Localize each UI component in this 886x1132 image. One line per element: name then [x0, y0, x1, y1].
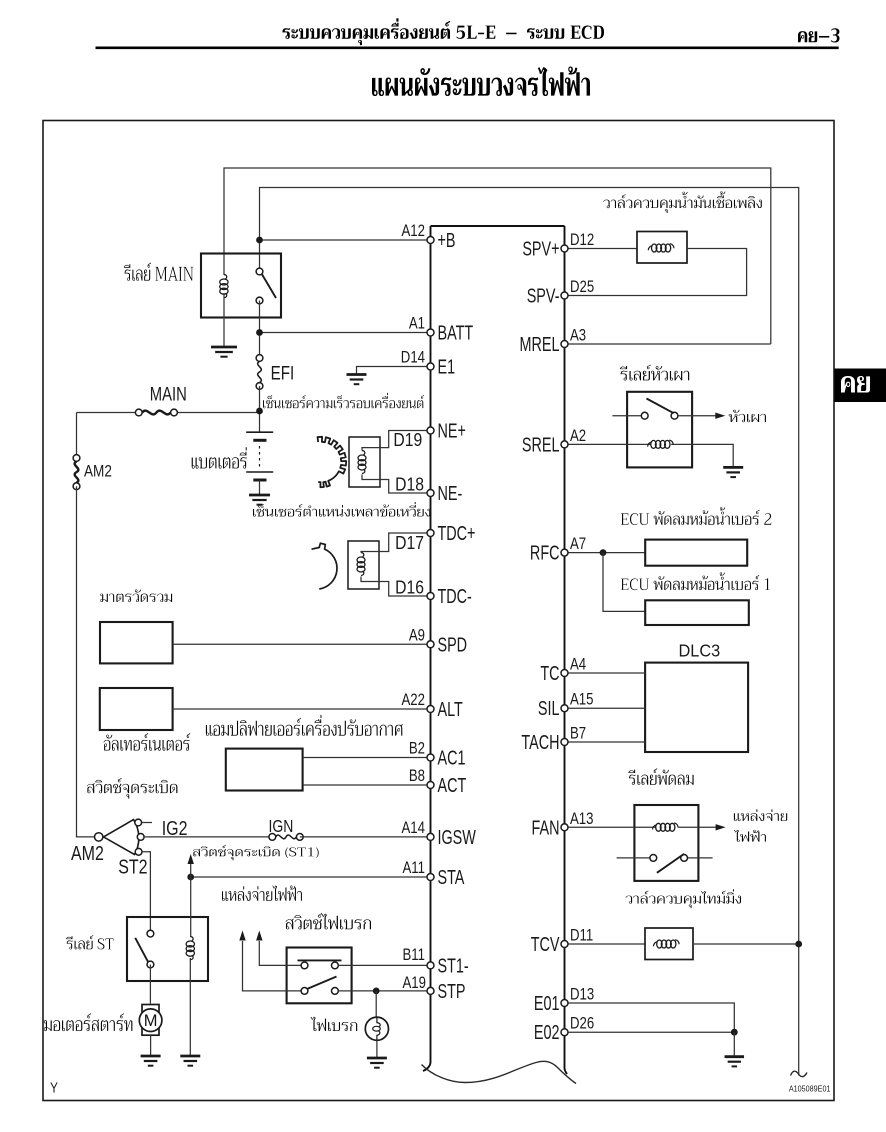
- node junction timing supply: [795, 941, 802, 948]
- relay ST switch contacts: [147, 930, 154, 937]
- ground starter motor: [141, 1056, 161, 1066]
- wire left trunk upper: [76, 413, 78, 459]
- ignition switch IGSW terminal: [137, 834, 144, 841]
- page header section code: [798, 28, 840, 42]
- svg-text:D11: D11: [570, 926, 593, 945]
- svg-text:B11: B11: [402, 946, 425, 965]
- svg-text:AM2: AM2: [84, 462, 112, 481]
- battery cells: [246, 432, 273, 480]
- svg-text:MAIN: MAIN: [150, 384, 187, 405]
- brake switch upper contacts ST1-: [301, 962, 308, 969]
- starter motor frame: [142, 1005, 159, 1036]
- fuel solenoid coil: [648, 244, 674, 252]
- svg-text:STA: STA: [438, 866, 465, 889]
- wire IGN fuse to pin A14: [300, 836, 431, 838]
- stub IG2: [142, 822, 152, 824]
- wire MAIN fusible link feed: [77, 412, 139, 414]
- wire E01: [565, 1003, 735, 1032]
- svg-text:+B: +B: [438, 229, 456, 252]
- node junction battery feed: [256, 408, 263, 415]
- relay MAIN coil: [220, 275, 228, 298]
- NE pickup coil box: [349, 437, 380, 487]
- wire RFC to fan ECU no2: [565, 552, 646, 554]
- svg-text:A1: A1: [409, 314, 425, 333]
- arrow supply to STP contact: [243, 941, 302, 991]
- wire E1 to ground: [357, 367, 431, 375]
- svg-text:D19: D19: [393, 429, 422, 451]
- wire ALT: [173, 708, 431, 710]
- node junction STA: [187, 874, 194, 881]
- TDC sensor rotor wheel: [312, 543, 338, 589]
- wire stop lamp to ground: [376, 1040, 378, 1058]
- svg-text:TACH: TACH: [521, 731, 559, 754]
- fuel solenoid box: [637, 232, 687, 264]
- wire RFC branch to fan ECU no1: [603, 553, 645, 612]
- pin A9 SPD: [427, 641, 434, 648]
- wire STA: [191, 876, 431, 878]
- svg-text:B7: B7: [570, 724, 586, 743]
- label ignition switch ST1: [193, 845, 319, 860]
- wire ST switch to starter motor: [149, 965, 151, 1004]
- wire SPD: [173, 643, 431, 645]
- svg-text:A2: A2: [570, 427, 586, 446]
- glow relay coil: [648, 440, 674, 448]
- wire AC1: [303, 757, 431, 759]
- wire MAIN relay coil to ground: [223, 293, 225, 347]
- relay MAIN switch blade: [262, 274, 276, 298]
- relay ST switch blade: [135, 938, 148, 963]
- svg-text:ST2: ST2: [118, 856, 147, 878]
- pin B7 TACH: [561, 739, 568, 746]
- svg-text:IGSW: IGSW: [438, 826, 477, 849]
- ECU right bus line: [565, 226, 568, 1074]
- label air conditioner amplifier: [206, 715, 403, 736]
- svg-text:ACT: ACT: [438, 774, 467, 797]
- label alternator: [104, 733, 191, 751]
- glow relay switch feed stub: [612, 415, 644, 417]
- arrow supply to ST1 contact: [259, 941, 301, 965]
- ground ST relay coil: [180, 1056, 200, 1066]
- svg-text:SIL: SIL: [538, 697, 560, 720]
- wire battery to ground: [259, 480, 261, 495]
- pin D13 E01: [561, 1000, 568, 1007]
- wire SREL to glow relay coil: [565, 443, 651, 445]
- wire NE- from coil: [362, 475, 431, 494]
- fan relay switch blade: [657, 854, 684, 873]
- pin B11 ST1-: [427, 962, 434, 969]
- relay MAIN switch contacts: [256, 268, 263, 275]
- wire FAN to fan relay coil: [565, 826, 656, 828]
- timing solenoid box: [645, 928, 693, 960]
- wire relay switch down through BATT to EFI fuse: [259, 301, 261, 359]
- NE pickup coil: [358, 451, 366, 474]
- alternator box: [100, 688, 173, 730]
- side tab text: [841, 376, 870, 393]
- svg-text:A4: A4: [570, 655, 586, 674]
- label fan ECU no2: [621, 507, 772, 525]
- label stop lamp: [311, 1017, 358, 1031]
- svg-text:D17: D17: [395, 532, 424, 554]
- svg-text:D12: D12: [570, 231, 594, 250]
- label ignition switch: [87, 778, 177, 799]
- svg-text:A7: A7: [570, 535, 586, 554]
- svg-text:A105089E01: A105089E01: [789, 1084, 831, 1093]
- combination meter box: [100, 622, 173, 663]
- wire junction to stop lamp: [375, 991, 377, 1017]
- svg-text:AC1: AC1: [438, 746, 466, 769]
- svg-text:E1: E1: [438, 355, 456, 378]
- pin D14 E1: [427, 363, 434, 370]
- A/C amplifier box: [226, 749, 303, 791]
- label fan ECU no1: [621, 572, 770, 590]
- ECU bottom cut wave: [422, 1061, 577, 1083]
- pin D25 SPV-: [561, 292, 568, 299]
- ground MAIN relay coil: [211, 347, 237, 357]
- brake switch lower contacts STP: [301, 988, 308, 995]
- brake switch upper blade closed: [298, 959, 342, 961]
- label engine speed sensor: [263, 393, 424, 408]
- svg-text:E01: E01: [534, 992, 560, 1015]
- wire ST1- to pin B11: [338, 964, 430, 966]
- pin A2 SREL: [561, 441, 568, 448]
- fan relay switch line: [617, 857, 650, 859]
- node junction BATT: [256, 329, 263, 336]
- svg-text:BATT: BATT: [438, 321, 474, 344]
- svg-text:A15: A15: [570, 690, 593, 709]
- wire SPV+ to solenoid: [565, 248, 638, 250]
- svg-text:D16: D16: [395, 576, 424, 598]
- svg-text:RFC: RFC: [530, 541, 560, 564]
- wire ST2 down to ST relay: [142, 852, 150, 934]
- timing solenoid coil: [653, 940, 679, 948]
- svg-text:D14: D14: [401, 348, 425, 367]
- wire starter motor to ground: [150, 1035, 152, 1056]
- svg-text:A9: A9: [409, 626, 425, 645]
- wire MREL: [565, 343, 771, 345]
- pin A15 SIL: [561, 705, 568, 712]
- svg-text:AM2: AM2: [71, 842, 104, 864]
- svg-text:SPD: SPD: [438, 633, 468, 656]
- pin B8 ACT: [427, 782, 434, 789]
- pin A1 BATT: [427, 329, 434, 336]
- svg-text:D25: D25: [570, 278, 594, 297]
- svg-text:A14: A14: [402, 819, 425, 838]
- label crankshaft position sensor: [253, 502, 430, 517]
- svg-text:D26: D26: [570, 1014, 594, 1033]
- wire BATT: [260, 332, 431, 334]
- fuse EFI: [256, 355, 263, 362]
- pin D17 TDC+: [427, 530, 434, 537]
- ignition switch ST2 terminal: [135, 848, 142, 855]
- fan relay box: [634, 805, 698, 881]
- pin A22 ALT: [427, 706, 434, 713]
- label power source line2: [734, 830, 766, 842]
- svg-text:MREL: MREL: [520, 333, 560, 356]
- svg-text:D18: D18: [395, 473, 424, 495]
- glow relay box: [627, 392, 692, 468]
- diagram title: [372, 67, 590, 96]
- label starter motor: [44, 1013, 132, 1031]
- svg-text:FAN: FAN: [532, 816, 560, 839]
- wire E02: [565, 1031, 735, 1033]
- node junction +B feed: [256, 237, 263, 244]
- svg-text:TDC+: TDC+: [438, 522, 476, 545]
- svg-text:SREL: SREL: [522, 433, 560, 456]
- label fuel cut solenoid valve: [603, 191, 761, 213]
- pin D16 TDC-: [427, 593, 434, 600]
- wire glow coil to ground: [671, 444, 733, 467]
- label timing control valve: [626, 889, 741, 908]
- ignition switch AM2 terminal: [95, 833, 103, 841]
- wire TC: [565, 672, 646, 674]
- svg-text:Y: Y: [50, 1079, 58, 1096]
- wire TCV to solenoid: [565, 943, 646, 945]
- svg-text:A19: A19: [403, 974, 426, 993]
- wire IGSW to IGN fuse: [144, 836, 272, 838]
- label stop lamp switch: [286, 913, 371, 929]
- ECU top edge: [431, 225, 565, 227]
- header rule: [96, 46, 839, 49]
- node junction stop lamp: [373, 988, 380, 995]
- fuse IGN: [269, 834, 276, 841]
- label relay MAIN: [124, 263, 193, 281]
- svg-text:IGN: IGN: [269, 818, 294, 837]
- wire MAIN relay coil feed to MREL: [224, 168, 771, 344]
- pin A13 FAN: [561, 824, 568, 831]
- pin A11 STA: [427, 874, 434, 881]
- NE sensor rotor toothed wheel: [318, 437, 347, 487]
- svg-text:TCV: TCV: [531, 933, 560, 956]
- wire MAIN relay switch feed long vertical: [260, 188, 799, 1076]
- label power source line1: [734, 809, 787, 821]
- relay MAIN box: [201, 254, 281, 318]
- relay ST coil: [186, 937, 194, 960]
- wire E0x to ground: [733, 1032, 735, 1056]
- label glow plug: [729, 410, 766, 422]
- svg-text:B8: B8: [409, 767, 425, 786]
- ground battery: [249, 495, 270, 505]
- DLC3 box: [645, 663, 748, 752]
- diagram border frame: [43, 121, 834, 1101]
- black side tab: [835, 369, 886, 403]
- stop lamp: [365, 1017, 388, 1040]
- pin D11 TCV: [561, 941, 568, 948]
- pin D19 NE+: [427, 427, 434, 434]
- svg-text:NE+: NE+: [438, 419, 466, 442]
- svg-text:A13: A13: [570, 809, 593, 828]
- fan ECU no1 box: [645, 600, 749, 625]
- glow relay switch blade: [647, 399, 674, 414]
- TDC pickup coil box: [348, 541, 379, 589]
- wire TDC- from coil: [361, 577, 431, 597]
- brake switch lower blade open: [307, 977, 337, 990]
- wire +B from relay junction: [260, 239, 431, 241]
- svg-text:E02: E02: [534, 1021, 560, 1044]
- svg-text:NE-: NE-: [438, 482, 463, 505]
- squiggle end of long vertical wire: [791, 1071, 808, 1076]
- brake switch box: [287, 948, 352, 1004]
- wire ST coil to ground: [189, 958, 191, 1056]
- ground stop lamp: [367, 1058, 387, 1068]
- pin D18 NE-: [427, 490, 434, 497]
- svg-text:A22: A22: [402, 691, 425, 710]
- wire NE+ from coil: [362, 431, 431, 451]
- label fan relay: [628, 768, 693, 785]
- wire fan relay coil out with arrow: [678, 826, 716, 828]
- page header title text: [282, 18, 604, 45]
- wire left trunk lower: [77, 486, 95, 837]
- ignition switch body: [104, 820, 139, 855]
- node junction RFC: [600, 549, 607, 556]
- pin A4 TC: [561, 670, 568, 677]
- svg-text:A3: A3: [570, 326, 586, 345]
- label relay ST: [66, 935, 113, 949]
- pin A3 MREL: [561, 341, 568, 348]
- svg-text:A12: A12: [402, 222, 425, 241]
- svg-text:B2: B2: [409, 739, 425, 758]
- pin B2 AC1: [427, 754, 434, 761]
- node junction E01 E02: [731, 1029, 738, 1036]
- label combination meter: [100, 589, 172, 602]
- fuse AM2: [73, 455, 80, 462]
- ground E01 E02: [725, 1057, 745, 1067]
- glow relay switch contacts: [641, 412, 648, 419]
- ignition switch IG2 terminal: [135, 819, 142, 826]
- svg-text:TDC-: TDC-: [438, 585, 473, 608]
- svg-text:D13: D13: [570, 985, 594, 1004]
- arrow STA supply up: [190, 864, 192, 877]
- ground glow relay: [723, 467, 743, 477]
- svg-text:M: M: [144, 1012, 158, 1030]
- wire STA junction down to ST coil: [190, 877, 192, 937]
- wire EFI fuse to battery junction: [259, 386, 261, 432]
- svg-text:SPV-: SPV-: [527, 284, 560, 307]
- wire TACH: [565, 741, 646, 743]
- wire timing solenoid to long vertical: [693, 943, 799, 945]
- label power source STA: [222, 886, 302, 901]
- relay ST box: [127, 917, 208, 981]
- svg-text:EFI: EFI: [271, 362, 295, 384]
- wire ACT: [303, 784, 431, 786]
- fan ECU no2 box: [645, 540, 747, 566]
- wire STP to pin A19: [338, 990, 430, 992]
- pin D26 E02: [561, 1029, 568, 1036]
- label battery: [192, 447, 247, 468]
- pin A12 +B: [427, 237, 434, 244]
- svg-text:ST1-: ST1-: [438, 954, 469, 977]
- pin A19 STP: [427, 987, 434, 994]
- label glow plug relay: [620, 365, 689, 381]
- svg-text:DLC3: DLC3: [679, 641, 721, 660]
- fusible link MAIN: [135, 409, 142, 416]
- svg-text:TC: TC: [540, 662, 559, 685]
- TDC pickup coil: [357, 553, 365, 576]
- wire SIL: [565, 707, 646, 709]
- wire glow output with arrow: [678, 415, 716, 417]
- wire TDC+ from coil: [361, 533, 431, 553]
- svg-text:IG2: IG2: [162, 817, 188, 839]
- svg-text:A11: A11: [402, 859, 425, 878]
- svg-text:STP: STP: [438, 980, 466, 1003]
- ground E1: [347, 375, 367, 385]
- pin D12 SPV+: [561, 245, 568, 252]
- pin A14 IGSW: [427, 833, 434, 840]
- fan relay switch contacts: [650, 855, 657, 862]
- svg-text:ALT: ALT: [438, 698, 464, 721]
- ECU left bus line: [423, 226, 431, 1071]
- svg-text:SPV+: SPV+: [522, 237, 559, 260]
- starter motor circle M: [139, 1009, 162, 1032]
- fan relay coil: [652, 823, 678, 831]
- pin A7 RFC: [561, 549, 568, 556]
- wire solenoid return to SPV-: [565, 249, 747, 296]
